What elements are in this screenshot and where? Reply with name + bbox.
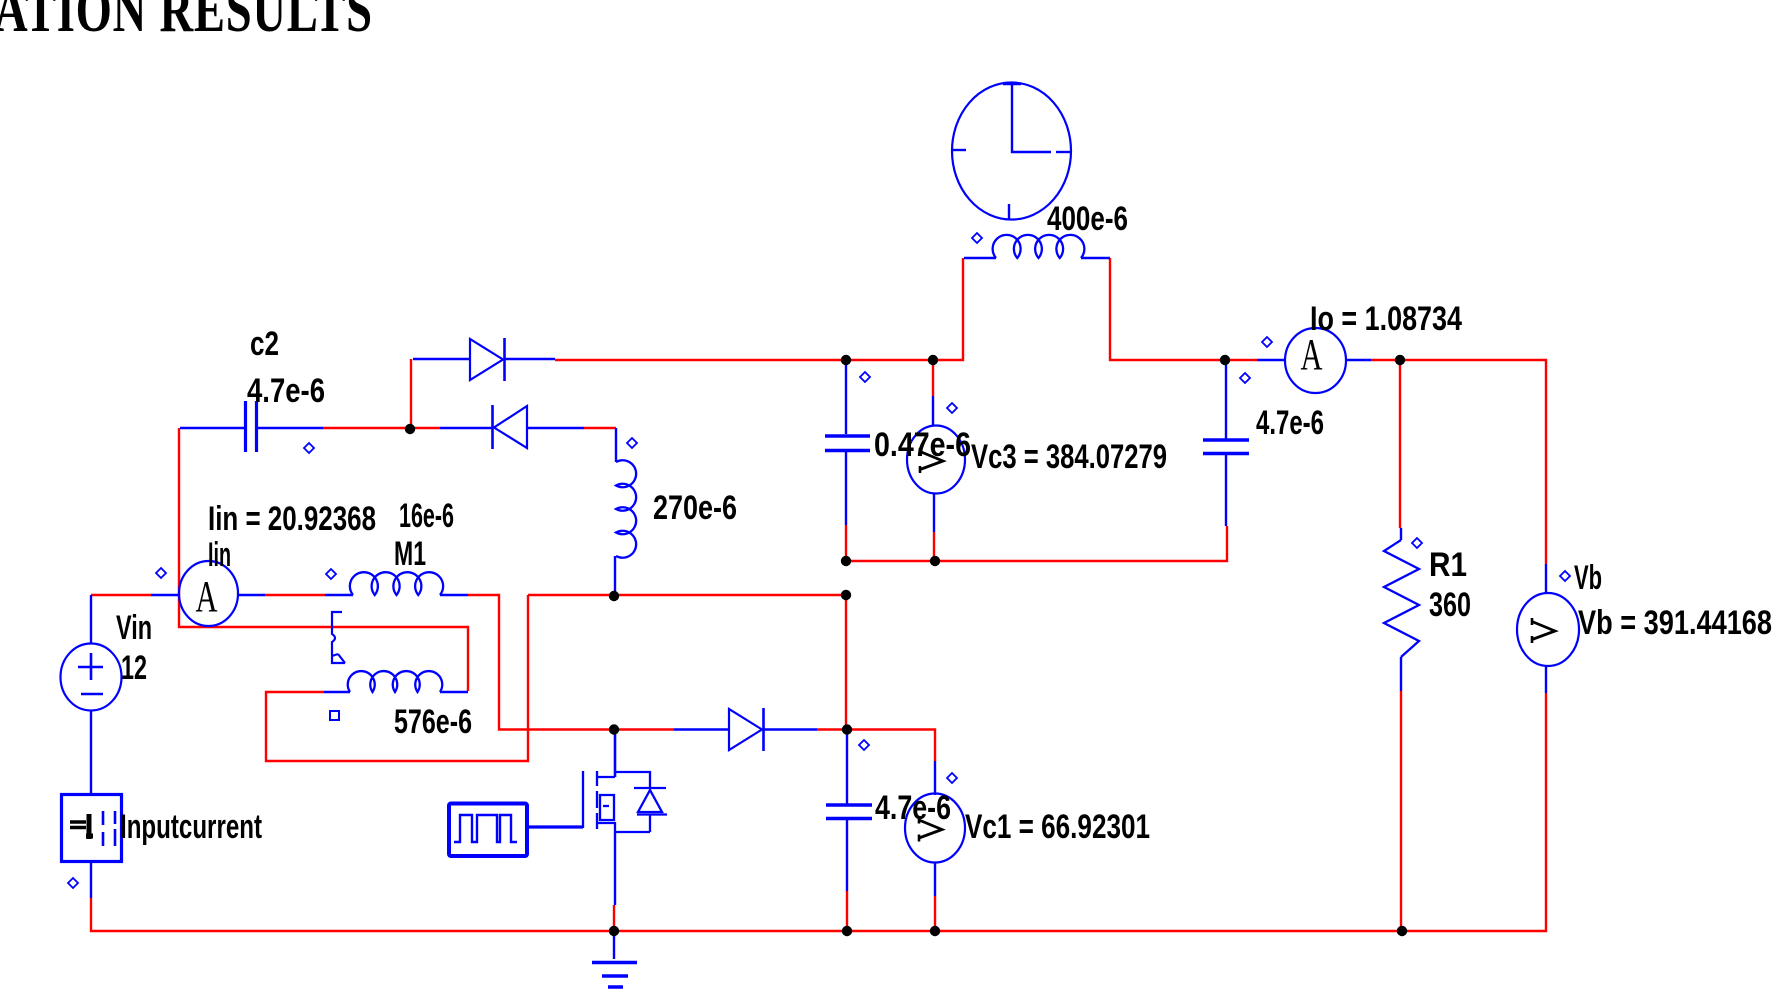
svg-text:R1: R1 bbox=[1429, 546, 1467, 584]
svg-text:Vin: Vin bbox=[116, 609, 152, 647]
svg-text:Vb = 391.44168: Vb = 391.44168 bbox=[1578, 604, 1772, 642]
svg-text:270e-6: 270e-6 bbox=[653, 489, 737, 527]
svg-text:16e-6: 16e-6 bbox=[399, 497, 454, 535]
svg-text:c2: c2 bbox=[250, 325, 279, 363]
svg-text:A: A bbox=[196, 572, 218, 621]
svg-text:Vc3 = 384.07279: Vc3 = 384.07279 bbox=[971, 438, 1167, 476]
svg-text:Iin: Iin bbox=[208, 536, 231, 574]
svg-text:Inputcurrent: Inputcurrent bbox=[120, 808, 262, 846]
svg-text:4.7e-6: 4.7e-6 bbox=[247, 372, 325, 410]
svg-text:360: 360 bbox=[1429, 586, 1471, 624]
svg-text:12: 12 bbox=[121, 649, 147, 687]
svg-text:M1: M1 bbox=[394, 535, 426, 573]
svg-text:Io = 1.08734: Io = 1.08734 bbox=[1310, 300, 1462, 338]
svg-text:Iin = 20.92368: Iin = 20.92368 bbox=[208, 500, 376, 538]
svg-text:Vb: Vb bbox=[1574, 559, 1602, 597]
svg-text:576e-6: 576e-6 bbox=[394, 703, 472, 741]
svg-text:0.47e-6: 0.47e-6 bbox=[874, 426, 971, 464]
svg-text:400e-6: 400e-6 bbox=[1047, 200, 1128, 238]
svg-text:4.7e-6: 4.7e-6 bbox=[1256, 404, 1324, 442]
svg-text:Vc1 = 66.92301: Vc1 = 66.92301 bbox=[965, 808, 1150, 846]
svg-text:4.7e-6: 4.7e-6 bbox=[875, 789, 951, 827]
